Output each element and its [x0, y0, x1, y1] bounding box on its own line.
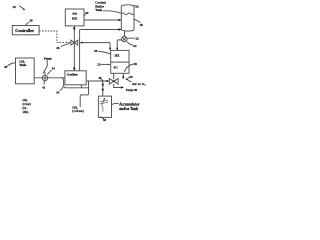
svg-text:Controller: Controller	[15, 28, 34, 33]
svg-text:32: 32	[135, 4, 139, 8]
svg-text:Pump: Pump	[44, 56, 52, 60]
svg-text:26: 26	[56, 46, 60, 50]
svg-text:10: 10	[12, 5, 16, 9]
arrow down into gasifier	[73, 68, 76, 71]
wire accumulator branch	[102, 81, 104, 96]
wire gasifier bottom outlet	[81, 85, 83, 88]
svg-text:Tank: Tank	[95, 8, 102, 12]
wire FC to valve 48	[113, 73, 115, 79]
svg-text:42: 42	[42, 85, 46, 89]
valve 26	[71, 40, 74, 45]
svg-text:HX: HX	[115, 54, 120, 58]
svg-text:(11-: (11-	[23, 107, 28, 110]
svg-text:18: 18	[139, 23, 143, 27]
svg-text:Accumulator: Accumulator	[119, 102, 140, 106]
node 10 (system reference numeral with arrow)	[12, 5, 25, 10]
wire coolant to HX (line Q)	[80, 43, 110, 51]
svg-text:Tank: Tank	[19, 63, 26, 67]
svg-text:Air or O₂: Air or O₂	[132, 82, 146, 86]
svg-text:FC: FC	[114, 66, 119, 70]
air inlet arrow	[126, 79, 131, 82]
svg-text:44: 44	[52, 67, 56, 71]
svg-text:12: 12	[97, 63, 101, 67]
svg-text:34: 34	[56, 91, 60, 95]
arrow into valve 48	[106, 80, 109, 82]
wire air HX to coolant buffer tank	[84, 19, 121, 21]
svg-text:14K): 14K)	[23, 111, 29, 114]
wire purge line	[114, 84, 123, 88]
arrow into coolant buffer tank upper	[118, 19, 121, 21]
svg-text:GH₂: GH₂	[72, 106, 77, 110]
svg-text:30: 30	[94, 49, 98, 53]
arrow into HX top	[116, 48, 118, 51]
svg-text:50: 50	[130, 75, 134, 79]
svg-text:(1 bar): (1 bar)	[23, 103, 31, 106]
liquid level squiggle	[121, 13, 134, 15]
svg-text:46: 46	[134, 62, 138, 66]
LH2 tank 40	[16, 58, 35, 84]
svg-text:and/or Tank: and/or Tank	[119, 107, 138, 111]
coolant buffer tank 32 (cylinder)	[121, 5, 134, 31]
wire FC outlet 46	[122, 73, 124, 78]
HX 30 / FC 12 stack	[111, 50, 129, 73]
wire air HX to gasifier (through valve 26)	[73, 26, 75, 70]
svg-text:22: 22	[135, 37, 139, 41]
wire gasifier bypass	[61, 78, 89, 88]
svg-text:(7-10 bar): (7-10 bar)	[72, 110, 84, 113]
coolant pump 22	[124, 31, 126, 37]
svg-text:Air: Air	[72, 12, 78, 16]
svg-text:20: 20	[85, 11, 89, 15]
svg-text:Purge 38: Purge 38	[126, 88, 138, 92]
wire gasifier to valve 48	[86, 80, 107, 82]
wire LH2 tank to pump to gasifier	[34, 77, 65, 79]
wire coolant return to buffer tank (line P)	[80, 30, 121, 71]
valve 48	[109, 79, 113, 85]
arrow left at node on down pipe	[80, 42, 83, 44]
arrow into HX top left	[109, 48, 111, 51]
svg-text:Gasifier: Gasifier	[67, 73, 79, 77]
arrow up into Air HX	[73, 26, 76, 29]
svg-text:24: 24	[133, 44, 137, 48]
controller 28	[12, 26, 39, 35]
svg-text:LH₂: LH₂	[23, 99, 28, 102]
wire GH2 product line	[80, 81, 88, 107]
wire coolant pump to HX	[117, 40, 121, 50]
pump 42	[42, 75, 47, 80]
arrow into coolant buffer tank	[118, 28, 121, 30]
wire dashed controller to valve 26	[39, 31, 71, 42]
svg-text:28: 28	[29, 19, 33, 23]
svg-text:HX: HX	[72, 17, 78, 21]
accumulator 36	[98, 96, 111, 117]
gasifier 34	[65, 71, 86, 85]
air HX 20	[65, 9, 84, 26]
